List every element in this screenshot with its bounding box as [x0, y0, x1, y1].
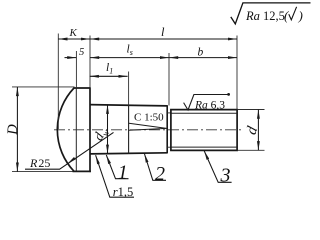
dimension D	[16, 87, 18, 172]
svg-text:D: D	[5, 124, 21, 136]
extension line D top	[12, 86, 75, 88]
svg-text:b: b	[198, 47, 204, 59]
svg-text:3: 3	[220, 165, 231, 187]
thread outline	[171, 110, 237, 151]
extension line head face	[89, 36, 91, 88]
taper symbol triangle	[129, 123, 167, 130]
dimension b	[169, 57, 237, 59]
svg-text:5: 5	[79, 47, 84, 58]
roughness mark Ra 6,3	[184, 95, 229, 111]
dimension l	[90, 38, 237, 40]
svg-text:Ra 6,3: Ra 6,3	[194, 100, 225, 112]
bolt head bottom edge	[73, 170, 91, 172]
dimension 5 (outside arrow)	[65, 57, 77, 59]
extension line D bottom	[12, 171, 73, 173]
extension line l1 / taper start	[128, 72, 130, 105]
svg-text:K: K	[69, 27, 78, 39]
dimension dw	[107, 105, 109, 154]
extension line 5-dim	[75, 51, 77, 88]
svg-text:Ra 12,5: Ra 12,5	[245, 9, 285, 23]
centerline axis	[54, 129, 243, 131]
taper start contour	[128, 105, 130, 153]
dimension K	[58, 38, 90, 40]
thread minor diameter bottom	[172, 146, 237, 148]
shank top edge (tapered)	[90, 105, 168, 106]
svg-text:R25: R25	[29, 156, 50, 170]
extension line left of head (K/D datum)	[57, 34, 59, 130]
extension line l/b right	[236, 36, 238, 110]
extension line d top	[238, 109, 265, 111]
svg-text:l: l	[161, 25, 165, 39]
small check in parentheses	[289, 7, 297, 20]
bolt head top edge	[74, 87, 91, 89]
dimension l1	[90, 75, 128, 77]
undercut groove top	[167, 112, 171, 114]
leader R25	[25, 132, 114, 169]
svg-text:(: (	[284, 8, 289, 23]
leader r1.5	[96, 155, 134, 197]
extension line ls/b	[168, 53, 170, 106]
shank bottom edge (tapered)	[90, 153, 168, 154]
dimension d	[257, 110, 259, 151]
extension line d bottom	[238, 149, 265, 151]
leader item 2	[144, 154, 166, 181]
roughness mark Ra 12,5	[231, 3, 311, 24]
dimension ls	[90, 57, 169, 59]
svg-text:r1,5: r1,5	[113, 185, 134, 199]
head sphere/band junction line	[75, 89, 77, 171]
leader item 3	[204, 151, 231, 182]
bolt head spherical arc R25	[57, 88, 74, 171]
svg-text:1: 1	[118, 161, 128, 183]
svg-text:): )	[298, 8, 303, 23]
shank end face	[166, 105, 168, 153]
svg-text:2: 2	[155, 163, 165, 185]
bolt head face	[89, 87, 91, 172]
thread minor diameter top	[172, 112, 237, 114]
leader item 1	[106, 155, 128, 179]
undercut groove bottom	[167, 146, 171, 148]
svg-text:C 1:50: C 1:50	[134, 112, 164, 124]
